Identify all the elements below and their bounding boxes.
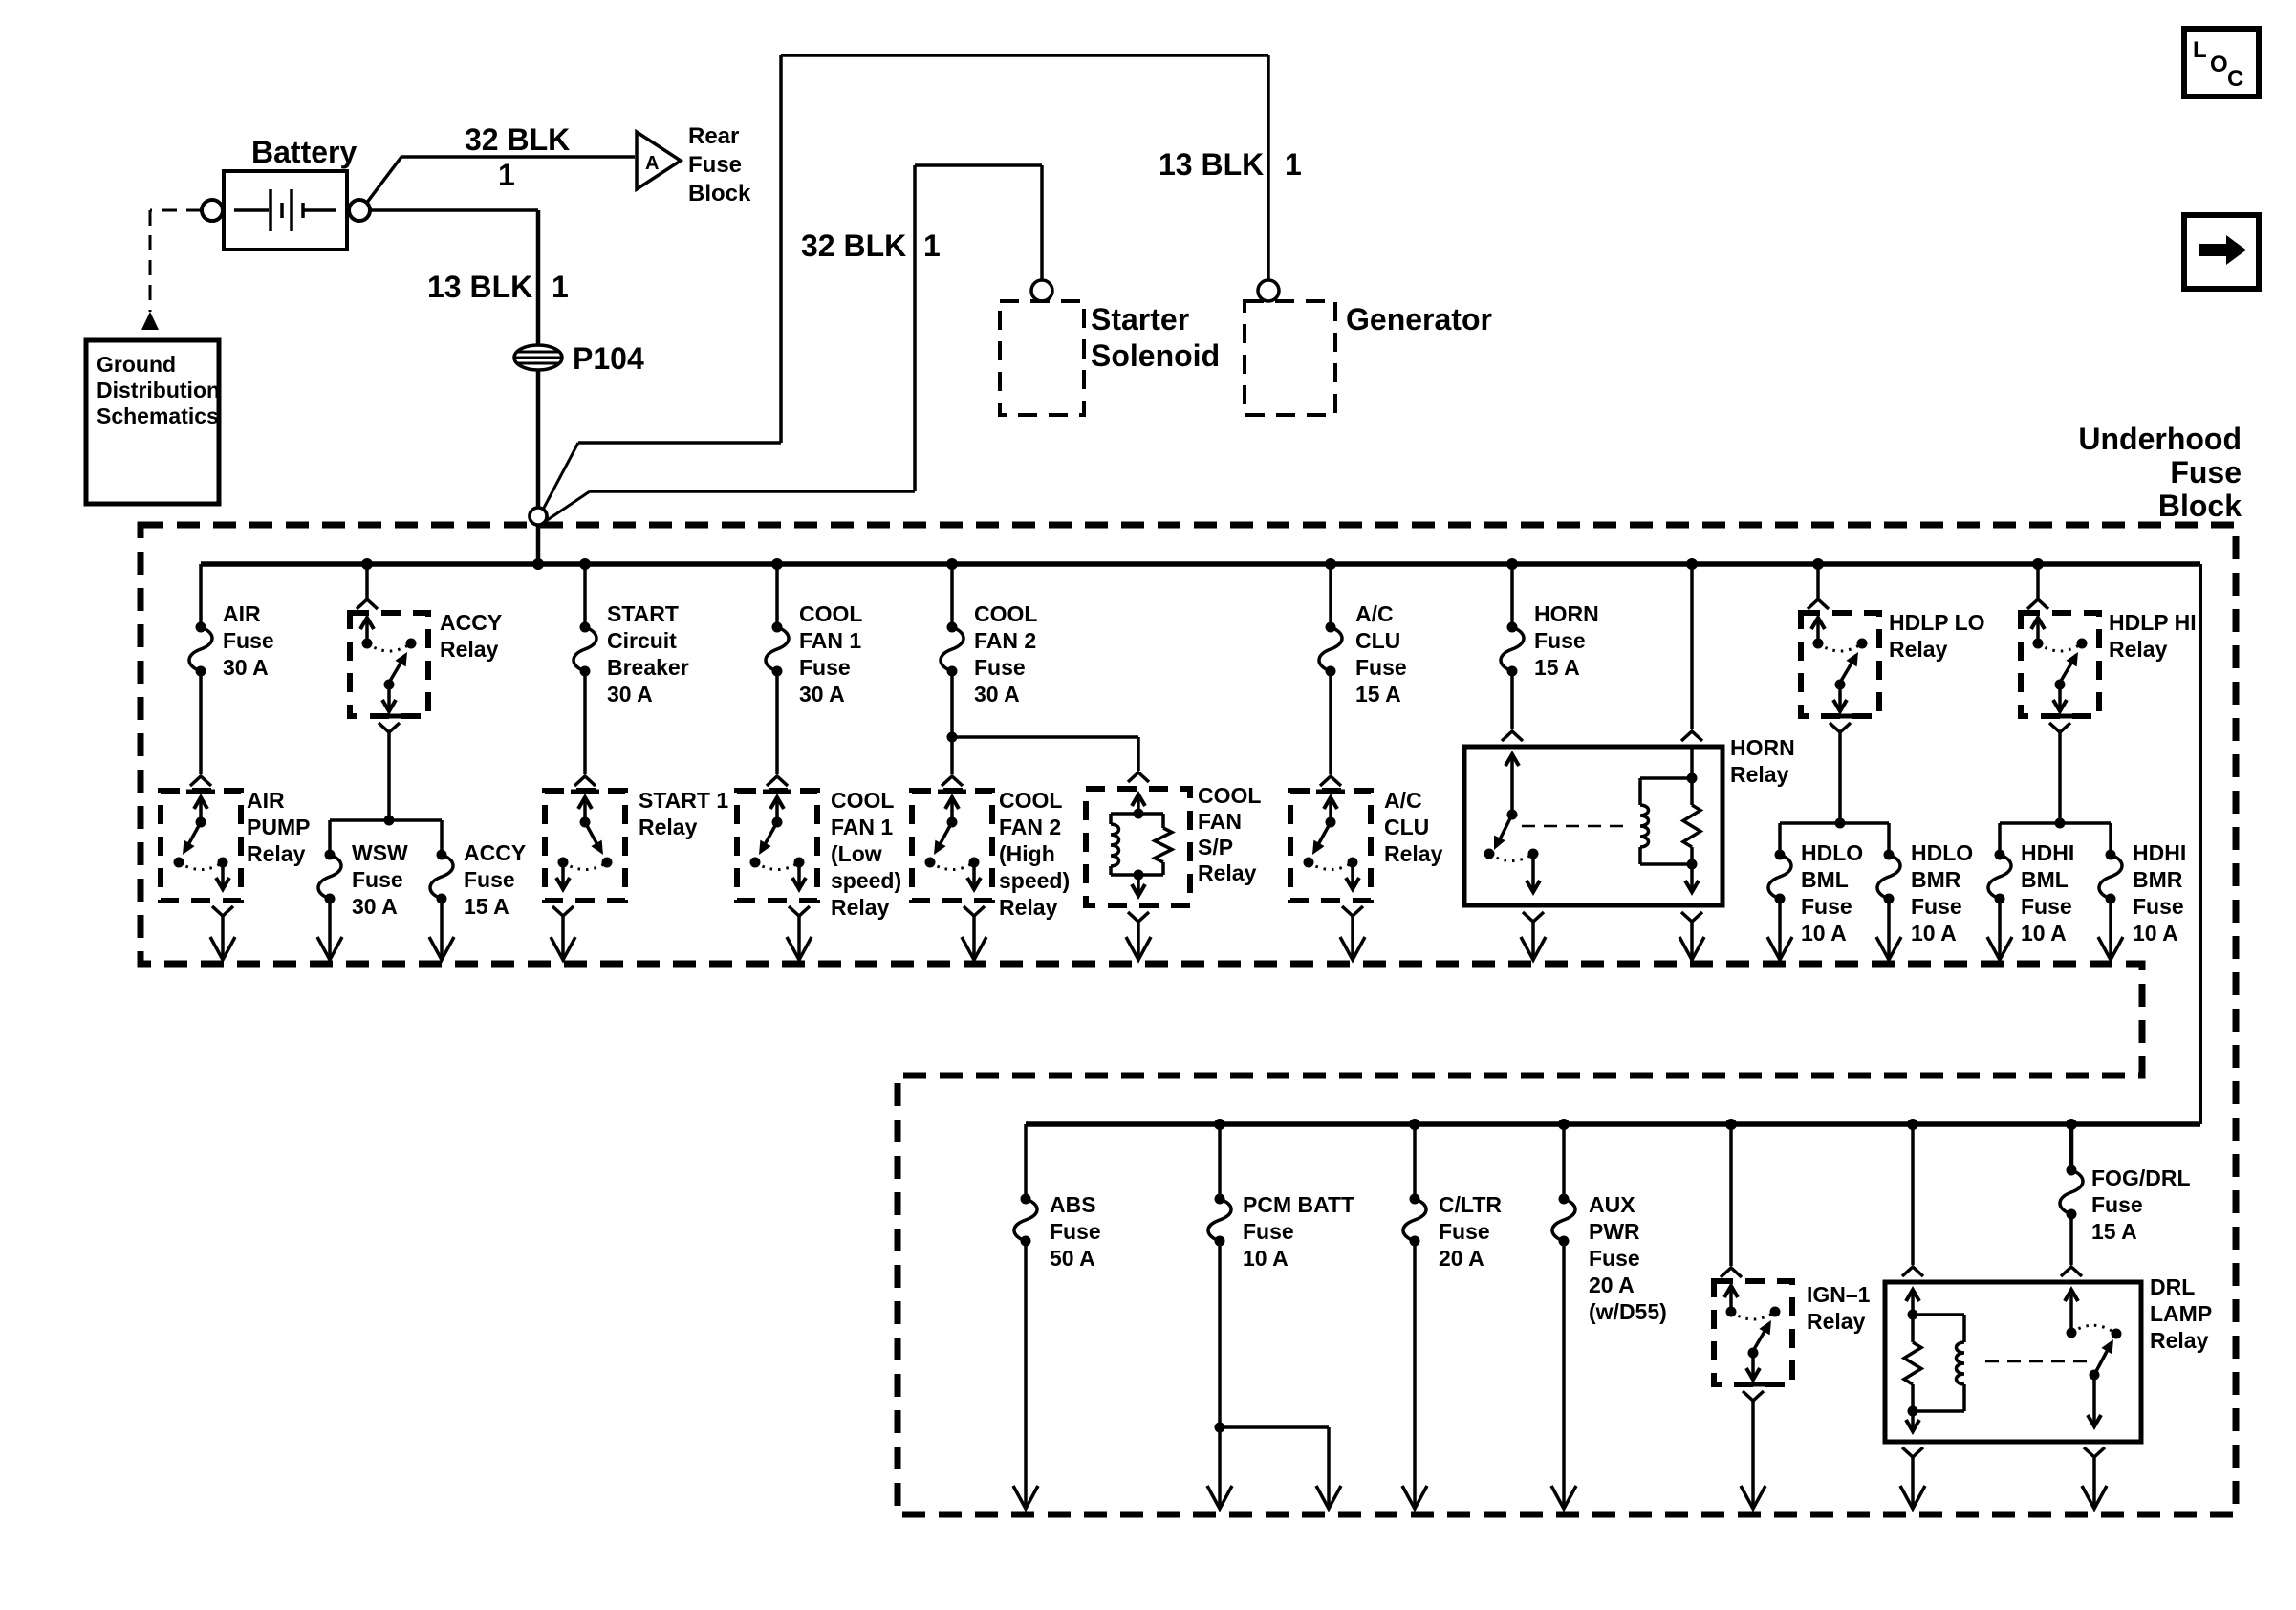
svg-text:C/LTR: C/LTR: [1439, 1192, 1502, 1217]
svg-text:Relay: Relay: [999, 895, 1058, 920]
svg-text:BML: BML: [2021, 867, 2069, 892]
svg-text:CLU: CLU: [1355, 628, 1400, 653]
svg-text:15 A: 15 A: [2091, 1219, 2137, 1244]
svg-text:PCM BATT: PCM BATT: [1243, 1192, 1354, 1217]
svg-text:S/P: S/P: [1198, 835, 1233, 859]
svg-text:HDLO: HDLO: [1911, 840, 1973, 865]
svg-text:Fuse: Fuse: [2133, 894, 2184, 919]
svg-text:Relay: Relay: [1384, 841, 1443, 866]
svg-text:50 A: 50 A: [1050, 1246, 1095, 1271]
svg-text:A: A: [645, 153, 659, 174]
svg-text:AIR: AIR: [223, 601, 261, 626]
svg-text:ACCY: ACCY: [464, 840, 526, 865]
svg-text:30 A: 30 A: [352, 894, 398, 919]
svg-text:COOL: COOL: [1198, 783, 1261, 808]
svg-text:Fuse: Fuse: [688, 152, 742, 178]
svg-text:WSW: WSW: [352, 840, 408, 865]
svg-text:HDLP HI: HDLP HI: [2109, 610, 2197, 635]
svg-text:13 BLK: 13 BLK: [427, 270, 532, 304]
svg-text:30 A: 30 A: [223, 655, 269, 680]
svg-text:15 A: 15 A: [464, 894, 509, 919]
svg-text:Fuse: Fuse: [1801, 894, 1852, 919]
svg-text:Ground: Ground: [97, 352, 176, 377]
svg-text:15 A: 15 A: [1534, 655, 1580, 680]
svg-text:Fuse: Fuse: [1355, 655, 1407, 680]
svg-text:Fuse: Fuse: [1050, 1219, 1101, 1244]
svg-text:1: 1: [923, 228, 941, 263]
svg-text:A/C: A/C: [1355, 601, 1394, 626]
svg-text:ABS: ABS: [1050, 1192, 1096, 1217]
svg-text:Fuse: Fuse: [352, 867, 403, 892]
svg-text:Block: Block: [688, 181, 751, 207]
svg-text:10 A: 10 A: [1801, 921, 1847, 946]
svg-text:30 A: 30 A: [799, 682, 845, 707]
svg-text:(w/D55): (w/D55): [1589, 1299, 1667, 1324]
svg-text:Relay: Relay: [247, 841, 306, 866]
svg-text:HDLP LO: HDLP LO: [1889, 610, 1985, 635]
svg-text:ACCY: ACCY: [440, 610, 502, 635]
svg-text:Underhood: Underhood: [2078, 422, 2242, 456]
svg-text:Relay: Relay: [1730, 762, 1789, 787]
svg-text:Fuse: Fuse: [974, 655, 1026, 680]
svg-text:Fuse: Fuse: [464, 867, 515, 892]
svg-text:Starter: Starter: [1091, 302, 1189, 337]
svg-text:Fuse: Fuse: [799, 655, 851, 680]
svg-text:FAN 1: FAN 1: [831, 815, 893, 839]
svg-text:Relay: Relay: [831, 895, 890, 920]
svg-text:LAMP: LAMP: [2150, 1301, 2212, 1326]
svg-text:START: START: [607, 601, 679, 626]
svg-text:DRL: DRL: [2150, 1274, 2195, 1299]
svg-text:Schematics: Schematics: [97, 403, 219, 428]
svg-text:15 A: 15 A: [1355, 682, 1401, 707]
svg-text:Relay: Relay: [639, 815, 698, 839]
svg-text:10 A: 10 A: [1911, 921, 1957, 946]
svg-text:20 A: 20 A: [1439, 1246, 1484, 1271]
svg-text:Fuse: Fuse: [2091, 1192, 2143, 1217]
svg-text:32 BLK: 32 BLK: [801, 228, 906, 263]
svg-text:P104: P104: [573, 341, 644, 376]
svg-text:BMR: BMR: [2133, 867, 2183, 892]
svg-text:(Low: (Low: [831, 841, 882, 866]
svg-text:Solenoid: Solenoid: [1091, 338, 1220, 373]
svg-text:Distribution: Distribution: [97, 378, 220, 402]
svg-text:32 BLK: 32 BLK: [465, 122, 570, 157]
svg-text:C: C: [2227, 66, 2243, 92]
svg-text:10 A: 10 A: [2021, 921, 2067, 946]
svg-text:COOL: COOL: [831, 788, 894, 813]
svg-text:START 1: START 1: [639, 788, 728, 813]
svg-text:Rear: Rear: [688, 123, 739, 149]
svg-text:Battery: Battery: [251, 135, 357, 169]
svg-text:13 BLK: 13 BLK: [1159, 147, 1264, 182]
svg-text:A/C: A/C: [1384, 788, 1422, 813]
svg-text:Relay: Relay: [1198, 860, 1257, 885]
svg-text:IGN–1: IGN–1: [1807, 1282, 1871, 1307]
svg-text:Relay: Relay: [440, 637, 499, 662]
svg-text:20 A: 20 A: [1589, 1273, 1635, 1297]
svg-text:Fuse: Fuse: [2170, 455, 2242, 490]
svg-text:30 A: 30 A: [607, 682, 653, 707]
svg-text:CLU: CLU: [1384, 815, 1429, 839]
svg-text:PUMP: PUMP: [247, 815, 310, 839]
svg-text:(High: (High: [999, 841, 1055, 866]
svg-text:Relay: Relay: [2150, 1328, 2209, 1353]
svg-text:Relay: Relay: [1807, 1309, 1866, 1334]
svg-text:30 A: 30 A: [974, 682, 1020, 707]
svg-text:Fuse: Fuse: [1911, 894, 1962, 919]
svg-text:BML: BML: [1801, 867, 1849, 892]
svg-text:HORN: HORN: [1730, 735, 1795, 760]
svg-text:speed): speed): [999, 868, 1070, 893]
svg-text:Fuse: Fuse: [1243, 1219, 1294, 1244]
svg-text:Relay: Relay: [1889, 637, 1948, 662]
svg-text:HORN: HORN: [1534, 601, 1599, 626]
svg-text:Generator: Generator: [1346, 302, 1492, 337]
svg-text:10 A: 10 A: [2133, 921, 2178, 946]
svg-text:HDLO: HDLO: [1801, 840, 1863, 865]
svg-text:Relay: Relay: [2109, 637, 2168, 662]
svg-text:BMR: BMR: [1911, 867, 1961, 892]
svg-text:FAN 1: FAN 1: [799, 628, 861, 653]
svg-text:1: 1: [552, 270, 569, 304]
svg-text:10 A: 10 A: [1243, 1246, 1289, 1271]
svg-text:HDHI: HDHI: [2021, 840, 2074, 865]
svg-text:O: O: [2210, 52, 2228, 77]
svg-text:Fuse: Fuse: [223, 628, 274, 653]
svg-text:Circuit: Circuit: [607, 628, 677, 653]
svg-text:Fuse: Fuse: [1589, 1246, 1640, 1271]
svg-text:FAN: FAN: [1198, 809, 1242, 834]
svg-text:AUX: AUX: [1589, 1192, 1635, 1217]
svg-text:COOL: COOL: [999, 788, 1062, 813]
svg-text:FOG/DRL: FOG/DRL: [2091, 1165, 2191, 1190]
svg-text:PWR: PWR: [1589, 1219, 1640, 1244]
svg-text:Fuse: Fuse: [1439, 1219, 1490, 1244]
svg-text:HDHI: HDHI: [2133, 840, 2186, 865]
svg-text:AIR: AIR: [247, 788, 285, 813]
svg-text:L: L: [2193, 37, 2207, 63]
svg-text:1: 1: [1285, 147, 1302, 182]
svg-text:speed): speed): [831, 868, 901, 893]
svg-text:Breaker: Breaker: [607, 655, 689, 680]
svg-text:Fuse: Fuse: [1534, 628, 1586, 653]
svg-text:1: 1: [498, 158, 515, 192]
svg-text:Fuse: Fuse: [2021, 894, 2072, 919]
svg-text:FAN 2: FAN 2: [974, 628, 1036, 653]
svg-text:COOL: COOL: [974, 601, 1037, 626]
svg-text:COOL: COOL: [799, 601, 862, 626]
svg-text:FAN 2: FAN 2: [999, 815, 1061, 839]
svg-text:Block: Block: [2158, 489, 2242, 523]
